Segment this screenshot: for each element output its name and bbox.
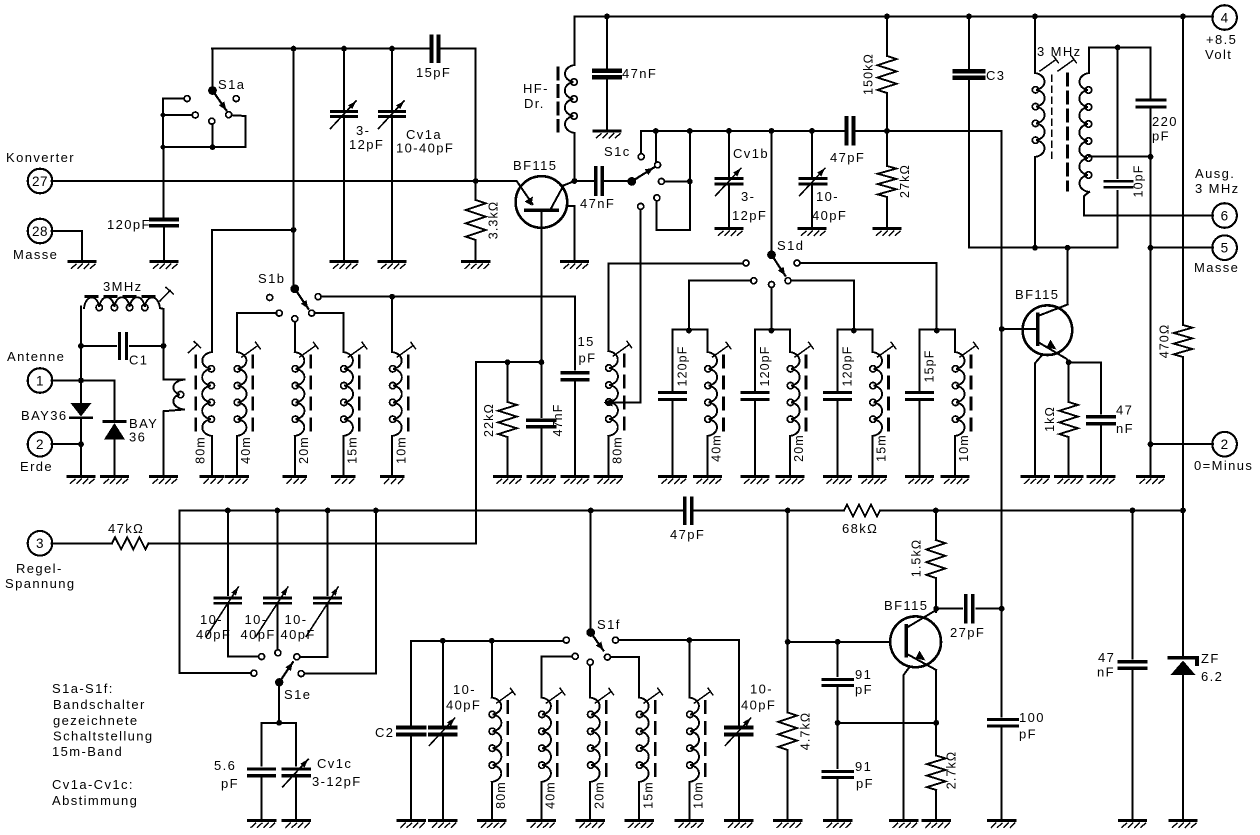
ground	[331, 262, 357, 269]
svg-text:40pF: 40pF	[812, 208, 847, 223]
svg-text:Cv1c: Cv1c	[317, 756, 352, 771]
terminal 2 0=Minus	[1194, 432, 1253, 473]
wire 80m coil top link	[212, 230, 294, 352]
resistor 470Ohm	[1158, 17, 1193, 511]
wire masse 28	[52, 231, 83, 260]
svg-text:10m: 10m	[394, 436, 408, 464]
wire osc collector node	[969, 191, 1118, 251]
ground	[528, 821, 554, 828]
svg-text:10-: 10-	[245, 612, 268, 627]
ground	[942, 477, 968, 484]
wire erde	[52, 441, 84, 474]
ground	[777, 477, 803, 484]
svg-text:3-12pF: 3-12pF	[312, 774, 362, 789]
svg-text:HF-: HF-	[523, 81, 549, 96]
terminal 6 Ausg. 3 MHz	[1195, 166, 1240, 228]
ground	[799, 229, 825, 236]
svg-text:120pF: 120pF	[841, 346, 855, 387]
coil 20m mixer	[588, 688, 614, 818]
ground	[430, 821, 456, 828]
svg-text:Ausg.: Ausg.	[1195, 166, 1235, 181]
svg-text:80m: 80m	[494, 781, 508, 809]
ground	[595, 477, 621, 484]
capacitor 120pF	[107, 147, 177, 259]
svg-text:pF: pF	[856, 776, 874, 791]
switch S1a	[184, 77, 245, 124]
svg-text:10-: 10-	[816, 189, 839, 204]
svg-text:3-: 3-	[741, 189, 755, 204]
capacitor 10-40pF trim a	[196, 511, 259, 657]
svg-text:120pF: 120pF	[676, 346, 690, 387]
wire mixer tank rail	[411, 638, 563, 644]
ground	[775, 821, 801, 828]
switch S1d pole wire	[771, 131, 773, 251]
svg-text:1: 1	[36, 373, 44, 388]
capacitor Cv1b 3-12pF	[716, 131, 769, 227]
resistor 27kOhm	[878, 131, 913, 227]
transformer 3 MHz	[1032, 17, 1213, 248]
ground	[716, 229, 742, 236]
ground	[249, 821, 275, 828]
switch S1a pole wire	[212, 49, 214, 87]
svg-text:Konverter: Konverter	[6, 150, 75, 165]
wire S1f right link	[619, 637, 739, 725]
terminal 27 Konverter	[6, 150, 75, 193]
wire AGC to base node	[149, 359, 545, 543]
switch S1f pole wire	[590, 511, 592, 629]
svg-text:5.6: 5.6	[214, 758, 236, 773]
svg-text:S1b: S1b	[258, 271, 285, 286]
svg-text:4: 4	[1221, 10, 1229, 25]
capacitor 47nF C4	[594, 17, 657, 130]
svg-text:C3: C3	[986, 68, 1005, 83]
ground	[923, 821, 949, 828]
wire Masse line	[1148, 245, 1214, 475]
svg-text:pF: pF	[221, 776, 239, 791]
svg-text:40pF: 40pF	[446, 698, 481, 713]
wire mixer base drop	[785, 511, 891, 645]
wire antenna input	[52, 346, 115, 383]
coil 10m mixer	[687, 688, 713, 818]
capacitor 91pF a	[823, 642, 873, 723]
ground	[151, 477, 177, 484]
svg-text:80m: 80m	[611, 436, 625, 464]
ground	[398, 821, 424, 828]
capacitor Cv1a 10-40pF	[379, 49, 455, 260]
svg-text:15m: 15m	[346, 436, 360, 464]
capacitor 10-40pF mix b	[725, 682, 776, 819]
ground	[528, 477, 554, 484]
svg-text:C2: C2	[375, 725, 394, 740]
svg-text:Erde: Erde	[20, 459, 53, 474]
switch S1e	[251, 650, 311, 702]
svg-text:S1a: S1a	[218, 77, 245, 92]
ground	[1170, 821, 1196, 828]
svg-text:pF: pF	[1019, 727, 1037, 742]
wire S1d contact 40m	[689, 281, 751, 331]
terminal 1 Antenne	[7, 349, 65, 393]
svg-text:15m: 15m	[875, 434, 889, 462]
svg-text:nF: nF	[1116, 421, 1134, 436]
svg-text:10pF: 10pF	[1132, 165, 1146, 198]
svg-text:Regel-: Regel-	[16, 561, 63, 576]
capacitor 10-40pF osc	[800, 131, 848, 227]
terminal 5 Masse	[1194, 235, 1239, 275]
svg-text:S1c: S1c	[604, 144, 631, 159]
svg-text:47nF: 47nF	[580, 196, 615, 211]
ground	[1138, 477, 1164, 484]
capacitor 10-40pF trim b	[241, 511, 291, 650]
svg-text:68kΩ: 68kΩ	[842, 521, 878, 536]
svg-text:91: 91	[855, 759, 872, 774]
svg-text:20m: 20m	[592, 781, 606, 809]
wire S1b to 15pF	[321, 294, 575, 370]
svg-text:pF: pF	[855, 682, 873, 697]
svg-text:15pF: 15pF	[923, 350, 937, 383]
ground	[726, 821, 752, 828]
resistor 3.3kOhm	[466, 181, 501, 260]
ground	[825, 477, 851, 484]
tank 20m (120pF + coil)	[742, 328, 813, 475]
ground	[676, 821, 702, 828]
choke HF-Dr.	[523, 17, 577, 182]
svg-text:40pF: 40pF	[241, 627, 276, 642]
svg-text:3MHz: 3MHz	[103, 279, 143, 294]
svg-text:470Ω: 470Ω	[1158, 324, 1172, 359]
svg-text:1kΩ: 1kΩ	[1043, 406, 1057, 432]
svg-text:20m: 20m	[297, 436, 311, 464]
resistor 47kOhm	[52, 521, 149, 549]
switch S1d	[743, 238, 804, 288]
ground	[382, 477, 403, 484]
resistor 2.7kOhm	[927, 723, 959, 819]
ground	[594, 131, 620, 138]
capacitor C3	[955, 17, 1006, 248]
svg-text:10-: 10-	[750, 682, 773, 697]
svg-text:+8.5: +8.5	[1206, 32, 1237, 47]
capacitor 47nF C6	[1069, 362, 1134, 474]
ground	[283, 821, 309, 828]
wire S1f contact 15m	[610, 657, 639, 697]
ground	[151, 262, 177, 269]
resistor 1kOhm	[1043, 362, 1078, 474]
coil 3MHz antenna	[81, 279, 173, 346]
ground	[1120, 821, 1146, 828]
transistor BF115 Q3	[884, 598, 941, 818]
svg-text:91: 91	[855, 667, 872, 682]
resistor 1.5kOhm	[910, 511, 945, 612]
capacitor 47pF osc	[830, 118, 865, 165]
svg-text:ZF: ZF	[1201, 651, 1220, 666]
svg-text:12pF: 12pF	[732, 208, 767, 223]
wire osc secondary top	[1089, 45, 1151, 51]
svg-text:40pF: 40pF	[281, 627, 316, 642]
svg-text:47pF: 47pF	[670, 527, 705, 542]
svg-text:Cv1a-Cv1c:: Cv1a-Cv1c:	[52, 777, 134, 792]
svg-text:Schaltstellung: Schaltstellung	[53, 729, 154, 744]
svg-text:27: 27	[32, 174, 48, 189]
svg-text:15m-Band: 15m-Band	[52, 744, 123, 759]
svg-text:47nF: 47nF	[551, 404, 565, 437]
wire S1d contact 20m	[771, 288, 773, 331]
capacitor 47pF mix	[670, 498, 705, 542]
wire mixer base line	[692, 508, 1186, 514]
capacitor 5.6pF	[214, 758, 275, 818]
ground	[660, 477, 686, 484]
coil 80m antenna (transformer secondary)	[189, 342, 215, 475]
wire antenna line	[52, 178, 517, 184]
svg-text:3 MHz: 3 MHz	[1037, 44, 1082, 59]
svg-text:pF: pF	[1152, 129, 1170, 144]
svg-text:S1e: S1e	[284, 687, 311, 702]
ground	[68, 477, 94, 484]
coil 40m antenna	[234, 342, 260, 474]
resistor 68kOhm	[842, 505, 880, 537]
ground	[874, 229, 900, 236]
ground	[495, 477, 521, 484]
svg-text:27pF: 27pF	[950, 625, 985, 640]
wire S1f contact 40m	[541, 656, 572, 697]
svg-text:15pF: 15pF	[416, 65, 451, 80]
wire S1c contact links	[657, 131, 693, 230]
coil 15m antenna	[341, 342, 367, 474]
ground	[226, 477, 247, 484]
svg-text:S1f: S1f	[597, 617, 621, 632]
capacitor 27pF	[936, 596, 1002, 640]
capacitor 15pF	[416, 36, 451, 80]
svg-text:47nF: 47nF	[622, 66, 657, 81]
svg-text:10-: 10-	[285, 612, 308, 627]
tank 40m (120pF + coil)	[660, 328, 731, 475]
terminal 3 Regel-Spannung	[5, 531, 75, 591]
svg-text:47kΩ: 47kΩ	[108, 521, 144, 536]
svg-text:40pF: 40pF	[196, 627, 231, 642]
svg-text:47: 47	[1098, 650, 1115, 665]
node osc emitter	[1066, 359, 1072, 365]
switch S1f	[563, 617, 620, 665]
capacitor 3-12pF trimmer	[331, 49, 385, 260]
resistor 22kOhm	[482, 362, 517, 474]
capacitor C1	[78, 334, 166, 368]
ground	[284, 477, 305, 484]
svg-text:4.7kΩ: 4.7kΩ	[799, 712, 813, 750]
svg-text:80m: 80m	[194, 436, 208, 464]
svg-text:10-40pF: 10-40pF	[396, 141, 454, 156]
svg-text:1.5kΩ: 1.5kΩ	[910, 539, 924, 577]
terminal 4 +8.5 Volt	[1205, 5, 1237, 62]
svg-text:2: 2	[36, 437, 44, 452]
ground	[695, 477, 721, 484]
svg-text:S1a-S1f:: S1a-S1f:	[52, 681, 114, 696]
capacitor 15pF (80m tank)	[562, 334, 596, 475]
svg-text:3 MHz: 3 MHz	[1195, 181, 1240, 196]
svg-text:Masse: Masse	[13, 247, 58, 262]
terminal 2 Erde	[20, 432, 53, 474]
ground	[825, 821, 851, 828]
wire S1a bracket	[161, 99, 246, 150]
svg-text:3: 3	[36, 536, 44, 551]
svg-text:10-: 10-	[200, 612, 223, 627]
svg-text:nF: nF	[1097, 665, 1115, 680]
svg-text:40pF: 40pF	[741, 698, 776, 713]
capacitor 10-40pF mix a	[429, 641, 481, 819]
switch S1b	[258, 271, 321, 322]
svg-text:pF: pF	[579, 351, 597, 366]
coil 80m mixer	[489, 641, 515, 819]
svg-text:C1: C1	[129, 353, 148, 368]
svg-text:gezeichnete: gezeichnete	[53, 713, 139, 728]
terminal 28 Masse	[13, 219, 58, 262]
switch S1c	[604, 144, 664, 209]
wire S1d contact 15m	[791, 281, 854, 331]
wire S1e right link	[304, 511, 376, 674]
svg-text:10-: 10-	[453, 682, 476, 697]
wire S1d contact 10m	[800, 263, 937, 331]
svg-text:10m: 10m	[692, 781, 706, 809]
ground	[479, 821, 505, 828]
svg-text:150kΩ: 150kΩ	[862, 53, 876, 95]
svg-text:Abstimmung: Abstimmung	[52, 793, 138, 808]
note Abstimmung	[52, 777, 138, 808]
wire AGC bus	[180, 508, 685, 674]
svg-text:220: 220	[1152, 114, 1178, 129]
svg-text:6: 6	[1221, 208, 1229, 223]
svg-text:40m: 40m	[544, 781, 558, 809]
coil 10m antenna	[390, 342, 416, 474]
svg-text:10m: 10m	[957, 434, 971, 462]
svg-text:15: 15	[578, 334, 595, 349]
capacitor 220pF	[1137, 48, 1178, 157]
ground	[1022, 477, 1048, 484]
wire top rail (S1a/trimmer bus)	[212, 46, 476, 181]
svg-text:6.2: 6.2	[1201, 669, 1223, 684]
coil 20m antenna	[292, 342, 318, 474]
note Bandschalter	[52, 681, 154, 759]
wire S1b contact 40m	[237, 313, 276, 352]
svg-text:BF115: BF115	[884, 598, 928, 613]
svg-text:120pF: 120pF	[758, 346, 772, 387]
ground	[907, 477, 933, 484]
svg-text:0=Minus: 0=Minus	[1194, 458, 1253, 473]
ground	[1056, 477, 1082, 484]
svg-text:40m: 40m	[710, 434, 724, 462]
wire S1c to 80m coil tap	[604, 209, 641, 406]
ground	[333, 477, 354, 484]
capacitor C2	[375, 641, 425, 819]
ground	[1088, 477, 1114, 484]
svg-text:22kΩ: 22kΩ	[482, 403, 496, 437]
node collector Q1	[572, 178, 578, 184]
capacitor 47nF C5	[578, 168, 628, 211]
svg-text:BAY36: BAY36	[21, 408, 68, 423]
capacitor 10pF	[1105, 48, 1146, 198]
wire osc tap	[1089, 154, 1153, 248]
switch S1b pole wire	[291, 49, 297, 285]
svg-text:120pF: 120pF	[107, 217, 151, 232]
svg-text:2.7kΩ: 2.7kΩ	[945, 751, 959, 789]
capacitor 91pF b	[823, 723, 874, 819]
svg-text:Antenne: Antenne	[7, 349, 65, 364]
transistor BF115 Q1	[513, 158, 575, 362]
svg-text:Spannung: Spannung	[5, 576, 75, 591]
svg-text:47pF: 47pF	[830, 150, 865, 165]
svg-text:Masse: Masse	[1194, 260, 1239, 275]
diode BAY36 D1	[21, 381, 92, 445]
svg-text:15m: 15m	[641, 781, 655, 809]
capacitor Cv1c 3-12pF	[283, 756, 362, 818]
svg-text:S1d: S1d	[777, 238, 804, 253]
coil 80m osc	[606, 264, 743, 475]
wire S1b contact 20m	[294, 322, 296, 352]
wire S1e pole	[262, 682, 297, 765]
capacitor 47nF C7	[528, 362, 565, 474]
coil 40m mixer	[539, 688, 565, 818]
transistor BF115 Q2	[1002, 248, 1073, 475]
svg-text:Dr.: Dr.	[524, 96, 545, 111]
ground	[989, 821, 1015, 828]
ground	[102, 477, 128, 484]
svg-text:20m: 20m	[792, 434, 806, 462]
wire osc bias rail	[641, 128, 1002, 162]
ground	[201, 477, 222, 484]
svg-text:3-: 3-	[356, 123, 370, 138]
ground	[742, 477, 768, 484]
ground	[562, 262, 588, 269]
svg-text:Bandschalter: Bandschalter	[53, 697, 146, 712]
svg-text:BF115: BF115	[1015, 287, 1059, 302]
svg-text:36: 36	[129, 430, 146, 445]
ground	[69, 262, 95, 269]
wire S1b contact 15m	[315, 313, 344, 352]
diode ZF 6.2 zener	[1170, 511, 1224, 819]
wire S1f contact 20m	[589, 665, 591, 697]
svg-text:12pF: 12pF	[349, 137, 384, 152]
resistor 150kOhm	[862, 17, 897, 132]
ground	[891, 821, 917, 828]
svg-text:BF115: BF115	[513, 158, 557, 173]
svg-text:28: 28	[32, 224, 48, 239]
ground	[379, 262, 405, 269]
svg-text:47: 47	[1116, 403, 1133, 418]
ground	[577, 821, 603, 828]
coil 15m mixer	[636, 688, 662, 818]
svg-text:Cv1b: Cv1b	[733, 146, 769, 161]
capacitor 100pF	[989, 710, 1045, 818]
ground	[463, 262, 489, 269]
ground	[860, 477, 886, 484]
wire +8.5V top rail	[575, 14, 1214, 20]
ground	[626, 821, 652, 828]
node emitter junction	[835, 720, 939, 726]
svg-text:Volt: Volt	[1205, 47, 1232, 62]
tank 10m (15pF + coil)	[907, 328, 979, 475]
svg-text:100: 100	[1019, 710, 1045, 725]
capacitor 10-40pF trim c	[281, 511, 341, 657]
wire osc base / injection line	[999, 131, 1005, 717]
svg-text:2: 2	[1221, 437, 1229, 452]
coil antenna primary	[164, 346, 185, 475]
svg-text:3.3kΩ: 3.3kΩ	[487, 201, 501, 239]
tank 15m (120pF + coil)	[825, 328, 896, 475]
capacitor 47nF out	[1097, 511, 1146, 819]
svg-text:40m: 40m	[239, 436, 253, 464]
diode BAY36 D2	[104, 381, 158, 475]
svg-text:27kΩ: 27kΩ	[898, 164, 912, 198]
ground	[562, 477, 588, 484]
svg-text:5: 5	[1221, 241, 1229, 256]
resistor 4.7kOhm	[778, 642, 812, 818]
